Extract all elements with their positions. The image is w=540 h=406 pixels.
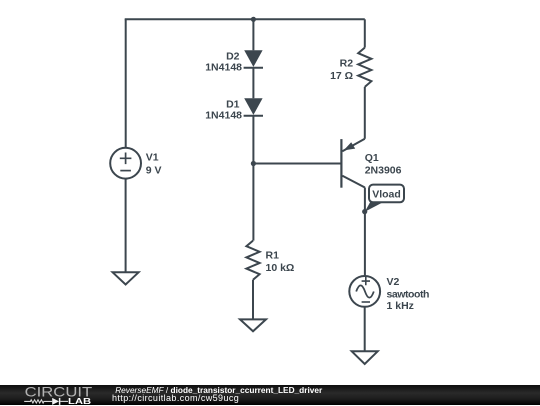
- wire D1 to base node: [252, 116, 254, 164]
- diode D2: [244, 50, 262, 67]
- transistor Q1 emitter arrow (PNP): [344, 142, 356, 150]
- footer credit line 1: [115, 385, 322, 395]
- footer bar: [0, 385, 540, 406]
- svg-text:sawtooth: sawtooth: [387, 289, 430, 301]
- wire top-left vertical (V1 to top rail): [125, 19, 127, 148]
- transistor Q1 emitter diagonal: [342, 139, 364, 152]
- svg-text:V1: V1: [146, 152, 159, 164]
- wire V2 bottom lead: [364, 307, 366, 352]
- wire R2 top lead: [364, 19, 366, 47]
- svg-text:V2: V2: [387, 276, 400, 288]
- wire V1 bottom lead: [125, 179, 127, 273]
- V1 minus sign: [120, 170, 131, 172]
- flag Vload box: [369, 185, 404, 203]
- voltage source V2 circle: [349, 276, 380, 307]
- wire diode chain: top rail to D2: [252, 19, 254, 50]
- flag Vload tail: [365, 202, 385, 212]
- svg-text:LAB: LAB: [68, 395, 91, 405]
- CircuitLab logo: [0, 385, 100, 406]
- V2 minus sign: [362, 301, 370, 303]
- wire base node down to R1: [252, 164, 254, 241]
- svg-text:1N4148: 1N4148: [205, 109, 242, 121]
- wire base from diode node to Q1: [253, 163, 341, 165]
- svg-text:Vload: Vload: [372, 188, 401, 200]
- transistor Q1 collector diagonal: [342, 176, 365, 188]
- resistor R1 zigzag: [246, 241, 259, 280]
- svg-text:1 kHz: 1 kHz: [387, 300, 414, 312]
- wire top rail horizontal: [125, 18, 365, 20]
- logo diode: [52, 397, 59, 404]
- V2 sine glyph: [356, 285, 374, 297]
- ground GND2 under R1: [240, 319, 266, 331]
- ground GND3 under V2: [352, 351, 378, 364]
- svg-text:9 V: 9 V: [146, 165, 162, 177]
- ground GND1 under V1: [113, 272, 139, 284]
- diode D1: [244, 98, 262, 115]
- voltage source V1 circle: [110, 148, 141, 179]
- svg-text:Q1: Q1: [365, 152, 379, 164]
- wire R1 bottom lead: [252, 280, 254, 320]
- transistor Q1 base bar: [340, 139, 342, 188]
- wire D2 to D1: [252, 68, 254, 99]
- svg-text:R2: R2: [340, 57, 354, 69]
- V2 plus sign: [362, 277, 370, 285]
- svg-text:1N4148: 1N4148: [205, 61, 242, 73]
- svg-text:2N3906: 2N3906: [365, 164, 402, 176]
- wire Q1 collector down to V2: [364, 188, 366, 277]
- logo resistor zigzag: [24, 399, 52, 402]
- node top junction dot: [251, 17, 256, 22]
- svg-text:R1: R1: [266, 250, 280, 262]
- V1 plus sign: [120, 153, 132, 165]
- svg-text:10 kΩ: 10 kΩ: [266, 262, 295, 274]
- node Vload junction dot: [362, 209, 367, 214]
- resistor R2 zigzag: [358, 48, 371, 87]
- wire R2 bottom lead to Q1 emitter: [364, 87, 366, 139]
- svg-text:17 Ω: 17 Ω: [330, 70, 353, 82]
- node base junction dot: [251, 161, 256, 166]
- footer credit line 2: [112, 393, 239, 403]
